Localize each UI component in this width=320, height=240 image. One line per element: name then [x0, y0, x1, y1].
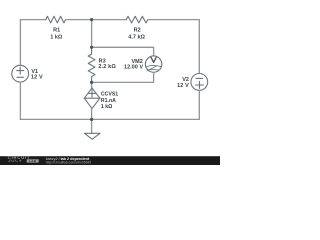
wire top-left segment [20, 20, 45, 66]
wire top-right segment [148, 20, 200, 74]
svg-text:http://circuitlab.com/c/nch5b9: http://circuitlab.com/c/nch5b95 [46, 161, 92, 165]
svg-text:CCVS1: CCVS1 [101, 91, 118, 97]
wire middle column upper [91, 20, 93, 48]
svg-text:R2: R2 [134, 28, 141, 34]
node junction R3 bottom [90, 81, 93, 84]
voltage source V1 [12, 65, 29, 82]
resistor R3 [88, 47, 95, 82]
svg-text:1 kΩ: 1 kΩ [50, 35, 63, 41]
svg-text:LAB: LAB [29, 159, 37, 163]
wire top-middle segment [66, 19, 127, 21]
wire CCVS1 to bottom rail [91, 109, 93, 120]
svg-text:12.00 V: 12.00 V [124, 65, 143, 71]
wire V1 bottom to bottom rail [19, 82, 21, 119]
wire R3 bottom to CCVS1 [91, 82, 93, 88]
svg-text:12 V: 12 V [177, 83, 189, 89]
voltage source V2 [191, 74, 208, 91]
voltmeter VM2 [145, 56, 161, 72]
svg-text:R1.nA: R1.nA [101, 98, 116, 104]
svg-text:4.7 kΩ: 4.7 kΩ [128, 35, 145, 41]
dependent source CCVS1 [84, 88, 100, 109]
resistor R2 [126, 16, 148, 23]
svg-text:2.2 kΩ: 2.2 kΩ [98, 64, 116, 70]
wire VM2 loop top [92, 47, 154, 56]
svg-text:CIRCUIT: CIRCUIT [8, 155, 31, 160]
ground [91, 119, 93, 133]
wire VM2 loop bottom [92, 72, 154, 82]
node junction bottom rail [90, 118, 93, 121]
node junction R3 top [90, 46, 93, 49]
svg-text:12 V: 12 V [31, 75, 43, 81]
svg-text:R1: R1 [53, 28, 60, 34]
wire bottom rail [20, 118, 199, 120]
svg-text:1 kΩ: 1 kΩ [101, 104, 112, 110]
node junction top [90, 18, 93, 21]
wire V2 bottom to bottom rail [198, 90, 200, 119]
resistor R1 [46, 16, 66, 23]
footer bar [0, 156, 220, 165]
